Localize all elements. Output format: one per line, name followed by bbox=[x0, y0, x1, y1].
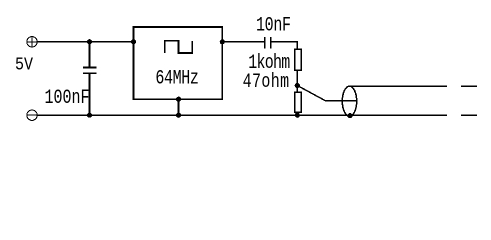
node: box bottom pin junction bbox=[176, 97, 181, 102]
wire top rail: + terminal to oscillator box bbox=[37, 41, 133, 43]
node: capacitor bottom junction bbox=[87, 113, 92, 118]
terminal - (negative input) bbox=[27, 110, 37, 120]
wire: R2 bottom to rail bbox=[296, 112, 298, 115]
capacitor 10nF (series) bbox=[265, 37, 271, 48]
node: box right pin junction bbox=[220, 39, 225, 44]
resistor 1kohm bbox=[295, 49, 302, 70]
wire: box right to 10nF bbox=[222, 41, 264, 43]
svg-text:64MHz: 64MHz bbox=[155, 67, 199, 90]
svg-text:47ohm: 47ohm bbox=[243, 71, 290, 94]
wire: 10nF to corner, down to R1 bbox=[271, 42, 297, 50]
svg-text:10nF: 10nF bbox=[256, 14, 291, 37]
wire: coax top continuation dash bbox=[461, 85, 477, 87]
wire: coax top line bbox=[351, 85, 448, 87]
resistor 47ohm bbox=[295, 92, 302, 112]
node: coax shield to bottom rail junction bbox=[347, 113, 352, 118]
node: bottom rail junction under box bbox=[176, 113, 181, 118]
node: capacitor top junction bbox=[87, 39, 92, 44]
node: box left pin junction bbox=[131, 39, 136, 44]
wire bottom rail bbox=[37, 114, 447, 116]
coax cable end ellipse bbox=[342, 86, 356, 116]
svg-text:5V: 5V bbox=[15, 55, 34, 76]
svg-text:100nF: 100nF bbox=[45, 87, 90, 110]
terminal + (5V positive input) bbox=[27, 37, 37, 47]
node: R2 bottom rail junction bbox=[295, 113, 300, 118]
oscillator U1 box bbox=[134, 27, 223, 99]
wire: box bottom pin to bottom rail bbox=[178, 99, 180, 115]
wire: R1 bottom to mid junction bbox=[296, 70, 298, 92]
wire: diagonal from mid junction to coax center conductor bbox=[297, 86, 357, 101]
capacitor 100nF bbox=[83, 42, 97, 115]
square wave symbol bbox=[165, 41, 193, 53]
node: R1/R2 mid junction bbox=[295, 83, 300, 88]
wire: coax bottom continuation dash bbox=[461, 114, 477, 116]
